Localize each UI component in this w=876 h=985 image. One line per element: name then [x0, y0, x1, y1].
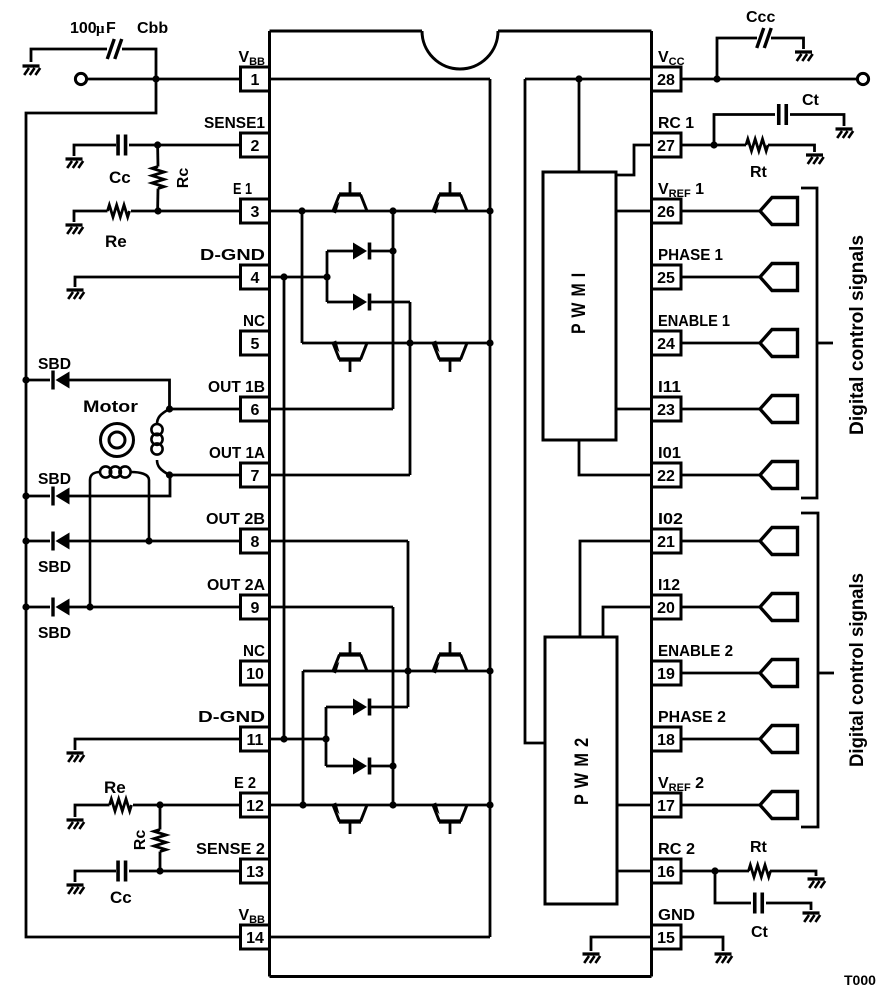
- svg-text:OUT 2A: OUT 2A: [207, 577, 265, 594]
- svg-text:OUT 2B: OUT 2B: [206, 511, 265, 528]
- svg-text:100: 100: [70, 20, 97, 37]
- svg-text:3: 3: [251, 204, 260, 221]
- svg-text:21: 21: [657, 534, 675, 551]
- svg-text:Cbb: Cbb: [137, 20, 168, 37]
- svg-text:PHASE 1: PHASE 1: [658, 247, 723, 264]
- svg-text:Ccc: Ccc: [746, 9, 775, 26]
- svg-text:1: 1: [251, 72, 260, 89]
- svg-text:Digital control signals: Digital control signals: [847, 235, 868, 435]
- svg-text:16: 16: [657, 864, 675, 881]
- svg-text:D-GND: D-GND: [200, 247, 265, 264]
- svg-text:17: 17: [657, 798, 675, 815]
- svg-text:5: 5: [251, 336, 260, 353]
- svg-text:SBD: SBD: [38, 559, 71, 576]
- svg-text:11: 11: [247, 732, 264, 749]
- svg-text:27: 27: [657, 138, 675, 155]
- svg-text:PHASE 2: PHASE 2: [658, 709, 726, 726]
- svg-text:I01: I01: [658, 445, 681, 462]
- svg-text:Rt: Rt: [750, 839, 768, 856]
- svg-text:μ: μ: [96, 21, 105, 37]
- svg-text:4: 4: [251, 270, 260, 287]
- svg-text:Rt: Rt: [750, 164, 768, 181]
- svg-text:GND: GND: [658, 907, 695, 924]
- svg-text:P W M 2: P W M 2: [572, 737, 593, 805]
- svg-text:8: 8: [251, 534, 260, 551]
- svg-text:I12: I12: [658, 577, 680, 594]
- svg-text:Re: Re: [105, 232, 127, 251]
- svg-text:E 2: E 2: [234, 775, 256, 792]
- svg-text:VBB: VBB: [238, 49, 265, 68]
- svg-text:I11: I11: [658, 379, 681, 396]
- svg-text:SBD: SBD: [38, 356, 71, 373]
- svg-text:VREF 2: VREF 2: [658, 775, 704, 794]
- svg-text:SENSE 2: SENSE 2: [196, 841, 265, 858]
- svg-text:7: 7: [251, 468, 260, 485]
- svg-text:2: 2: [251, 138, 260, 155]
- svg-text:6: 6: [251, 402, 260, 419]
- svg-text:VREF 1: VREF 1: [658, 181, 704, 200]
- svg-text:Cc: Cc: [109, 168, 131, 187]
- svg-text:Ct: Ct: [751, 924, 769, 941]
- svg-text:15: 15: [657, 930, 675, 947]
- svg-text:SBD: SBD: [38, 471, 71, 488]
- svg-text:22: 22: [657, 468, 675, 485]
- svg-text:28: 28: [657, 72, 675, 89]
- svg-text:14: 14: [246, 930, 264, 947]
- svg-text:I02: I02: [658, 511, 683, 528]
- svg-text:Ct: Ct: [802, 92, 820, 109]
- svg-text:VCC: VCC: [658, 49, 685, 68]
- svg-text:D-GND: D-GND: [198, 709, 265, 726]
- svg-text:Rc: Rc: [132, 830, 149, 851]
- svg-text:20: 20: [657, 600, 675, 617]
- svg-text:18: 18: [657, 732, 675, 749]
- svg-text:E 1: E 1: [233, 181, 252, 198]
- svg-text:12: 12: [246, 798, 264, 815]
- svg-text:Motor: Motor: [83, 397, 138, 416]
- svg-text:13: 13: [246, 864, 264, 881]
- svg-text:ENABLE 2: ENABLE 2: [658, 643, 733, 660]
- svg-text:RC 2: RC 2: [658, 841, 695, 858]
- svg-text:RC 1: RC 1: [658, 115, 694, 132]
- svg-text:T000: T000: [844, 972, 876, 985]
- svg-text:Rc: Rc: [175, 168, 192, 189]
- svg-text:9: 9: [251, 600, 260, 617]
- svg-text:24: 24: [657, 336, 675, 353]
- svg-text:Re: Re: [104, 778, 126, 797]
- svg-text:23: 23: [657, 402, 675, 419]
- svg-text:ENABLE 1: ENABLE 1: [658, 313, 730, 330]
- svg-text:SBD: SBD: [38, 625, 71, 642]
- svg-text:26: 26: [657, 204, 675, 221]
- svg-text:25: 25: [657, 270, 675, 287]
- svg-text:P W M I: P W M I: [569, 272, 590, 334]
- svg-text:OUT 1B: OUT 1B: [208, 379, 265, 396]
- svg-text:F: F: [106, 20, 116, 37]
- svg-text:NC: NC: [243, 313, 265, 330]
- svg-text:Cc: Cc: [110, 888, 132, 907]
- svg-text:VBB: VBB: [238, 907, 265, 926]
- svg-text:OUT 1A: OUT 1A: [209, 445, 265, 462]
- svg-text:SENSE1: SENSE1: [204, 115, 265, 132]
- svg-text:NC: NC: [243, 643, 265, 660]
- svg-text:10: 10: [246, 666, 264, 683]
- svg-text:19: 19: [657, 666, 675, 683]
- svg-text:Digital control signals: Digital control signals: [847, 573, 868, 767]
